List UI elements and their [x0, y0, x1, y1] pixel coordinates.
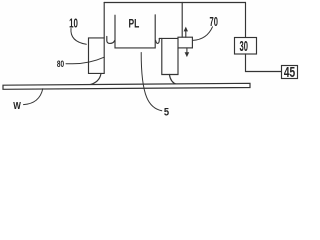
leader W — [24, 89, 43, 105]
leader 70 — [193, 27, 213, 41]
svg-text:10: 10 — [69, 16, 78, 31]
wire rail to recovery box — [181, 3, 183, 38]
wafer / substrate bar — [3, 83, 250, 89]
supply nozzle block 10 (left) — [89, 38, 105, 74]
svg-text:80: 80 — [57, 58, 64, 69]
wire box 30 to box 45 elbow — [246, 54, 282, 72]
up arrow (recovery flow) — [184, 27, 188, 32]
wire left vertical (rail to nozzle block) — [103, 3, 105, 74]
wire recovery block top edge — [159, 37, 178, 39]
svg-text:W: W — [13, 101, 21, 112]
down arrow (recovery flow) — [186, 48, 188, 53]
svg-text:70: 70 — [210, 14, 218, 29]
box 30 — [235, 38, 257, 55]
svg-text:5: 5 — [164, 106, 169, 118]
projection lens PL (open-top box) — [115, 15, 155, 48]
liquid stream from recovery nozzle to wafer — [169, 75, 176, 85]
svg-text:30: 30 — [240, 38, 248, 55]
liquid stream from supply nozzle to wafer — [89, 74, 101, 85]
recovery nozzle block (right) — [162, 38, 178, 74]
box 45 — [282, 66, 298, 79]
leader 10 — [71, 29, 86, 45]
wire top rail — [104, 2, 245, 4]
wire right vertical (rail to box 30) — [245, 3, 247, 38]
svg-text:PL: PL — [129, 16, 140, 30]
recovery channel fillet (right of lens) — [156, 38, 160, 43]
up arrow shaft — [185, 31, 187, 38]
supply channel fillet (left of lens) — [107, 36, 115, 43]
leader 80 — [66, 57, 104, 64]
svg-text:45: 45 — [284, 64, 295, 81]
recovery unit box 70 — [178, 37, 192, 48]
leader 5 — [141, 53, 162, 111]
